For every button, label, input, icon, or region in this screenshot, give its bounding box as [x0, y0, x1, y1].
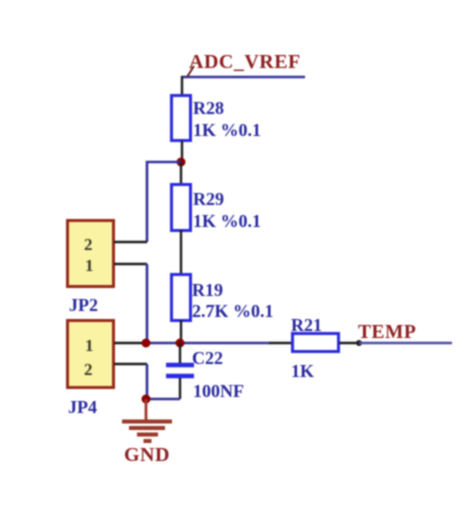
- capacitor C22: [166, 343, 194, 399]
- net label ADC_VREF: [189, 51, 301, 73]
- svg-text:1: 1: [85, 256, 94, 275]
- resistor R19: [172, 275, 191, 345]
- label R19 designator: [192, 280, 223, 300]
- svg-text:1: 1: [85, 336, 94, 355]
- label JP2 designator: [69, 295, 98, 315]
- svg-text:ADC_VREF: ADC_VREF: [189, 51, 301, 73]
- label GND: [124, 444, 170, 466]
- svg-text:2: 2: [84, 360, 93, 379]
- junction node R19 / C22 on TEMP rail: [176, 339, 185, 348]
- wire ADC_VREF rail: [181, 76, 305, 79]
- svg-text:R28: R28: [193, 98, 224, 118]
- JP4 pin number 1: [85, 336, 94, 355]
- resistor R29: [172, 162, 191, 275]
- ground GND symbol: [122, 399, 172, 441]
- svg-text:2: 2: [84, 235, 93, 254]
- JP2 pin number 2: [84, 235, 93, 254]
- wire C22 bottom to GND node: [147, 398, 180, 401]
- junction node GND: [142, 395, 151, 404]
- label C22 designator: [192, 348, 223, 368]
- resistor R28: [172, 76, 191, 163]
- label JP4 designator: [68, 397, 97, 417]
- net label tick: [187, 66, 194, 77]
- label R28 designator: [193, 98, 224, 118]
- svg-text:1K: 1K: [291, 361, 314, 381]
- svg-text:R19: R19: [192, 280, 223, 300]
- svg-text:R21: R21: [291, 315, 322, 335]
- svg-text:2.7K %0.1: 2.7K %0.1: [192, 301, 274, 321]
- svg-text:1K %0.1: 1K %0.1: [193, 120, 261, 140]
- label R29 value 1K %0.1: [193, 211, 261, 231]
- wire JP4 pin 2 down to GND node: [146, 364, 149, 399]
- svg-text:TEMP: TEMP: [358, 322, 416, 343]
- junction node R28/R29/JP2: [177, 158, 186, 167]
- JP2 pin number 1: [85, 256, 94, 275]
- label C22 value 100NF: [193, 381, 244, 401]
- svg-text:C22: C22: [192, 348, 223, 368]
- label R21 value 1K: [291, 361, 314, 381]
- wire R21 to TEMP: [359, 342, 452, 344]
- svg-text:R29: R29: [193, 189, 224, 209]
- resistor R21: [269, 334, 360, 352]
- svg-text:100NF: 100NF: [193, 381, 244, 401]
- wire junction to JP2 pin 2: [147, 162, 181, 242]
- JP4 pin number 2: [84, 360, 93, 379]
- svg-text:GND: GND: [124, 444, 170, 466]
- label R19 value 2.7K %0.1: [192, 301, 274, 321]
- label R28 value 1K %0.1: [193, 120, 261, 140]
- connector JP2: [68, 221, 148, 287]
- connector JP4: [68, 321, 148, 388]
- net label TEMP: [358, 322, 416, 343]
- svg-text:JP4: JP4: [68, 397, 97, 417]
- svg-text:JP2: JP2: [69, 295, 98, 315]
- wire TEMP rail: [146, 342, 270, 345]
- svg-text:1K %0.1: 1K %0.1: [193, 211, 261, 231]
- label R21 designator: [291, 315, 322, 335]
- label R29 designator: [193, 189, 224, 209]
- wire JP2 pin 1 to TEMP node: [146, 264, 149, 343]
- pin end node at TEMP: [356, 340, 362, 346]
- junction node JP2 pin1 / JP4 pin1 on TEMP rail: [142, 339, 151, 348]
